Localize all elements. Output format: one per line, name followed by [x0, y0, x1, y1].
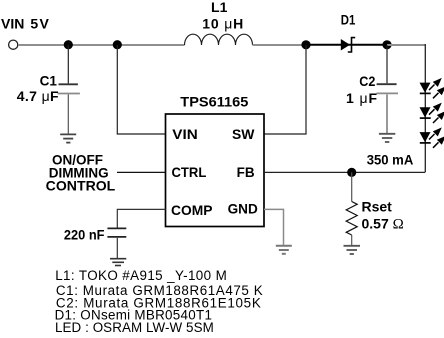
ground 220nF [110, 258, 126, 260]
node SW junction [301, 40, 310, 49]
node FB junction [347, 168, 356, 177]
svg-text:D1: D1 [341, 12, 356, 28]
capacitor C2 [377, 83, 397, 85]
svg-text:VIN: VIN [172, 126, 197, 142]
svg-text:1 μF: 1 μF [346, 90, 378, 106]
LED 3 (bottom) [420, 127, 444, 147]
node junction C1 branch [64, 40, 73, 49]
wire FB to Rset [351, 172, 353, 201]
resistor Rset [346, 202, 357, 236]
node junction VIN branch [113, 40, 122, 49]
svg-text:350 mA: 350 mA [367, 151, 414, 167]
wire output to LED string corner [387, 44, 425, 46]
svg-text:L1: L1 [211, 0, 228, 15]
capacitor 220nF (COMP) [107, 227, 126, 229]
wire C1 branch upper [67, 45, 69, 83]
wire top rail left (terminal to inductor) [18, 44, 185, 46]
svg-text:220 nF: 220 nF [64, 227, 105, 243]
ground C1 [60, 133, 76, 135]
wire LED string vertical [424, 44, 426, 172]
wire GND branch [264, 209, 284, 244]
svg-text:FB: FB [237, 164, 255, 180]
wire inductor to D1 [253, 44, 307, 46]
svg-text:4.7 μF: 4.7 μF [17, 88, 59, 104]
svg-text:0.57 Ω: 0.57 Ω [362, 216, 404, 233]
wire FB [264, 171, 425, 173]
wire D1 segment (bold) [306, 44, 387, 46]
ground GND pin [276, 245, 292, 247]
wire Rset to ground [351, 235, 353, 245]
svg-text:Rset: Rset [362, 199, 393, 215]
wire VIN branch [117, 45, 165, 134]
svg-text:CTRL: CTRL [172, 164, 207, 180]
svg-text:SW: SW [232, 126, 255, 142]
ground Rset [344, 245, 361, 247]
svg-text:VIN: VIN [1, 15, 24, 31]
svg-text:COMP: COMP [171, 202, 212, 218]
wire COMP branch [117, 209, 165, 227]
wire C1 branch lower [67, 94, 69, 134]
svg-text:10 μH: 10 μH [202, 15, 244, 31]
svg-text:C2: C2 [359, 73, 375, 89]
wire CTRL [117, 171, 166, 173]
wire C2 branch upper [386, 45, 388, 83]
svg-text:5V: 5V [30, 15, 50, 31]
svg-text:GND: GND [228, 200, 258, 216]
wire C2 branch lower [386, 94, 388, 133]
wire SW branch [264, 45, 306, 134]
ground C2 [379, 133, 395, 135]
svg-text:TPS61165: TPS61165 [180, 94, 248, 110]
node output junction [382, 40, 391, 49]
inductor L1 [185, 34, 253, 45]
LED 1 (top) [420, 78, 444, 98]
svg-text:LED : OSRAM LW-W 5SM: LED : OSRAM LW-W 5SM [55, 320, 214, 335]
node VIN input terminal [9, 40, 18, 49]
wire below 220nF [116, 238, 118, 258]
diode D1 (schottky) [341, 39, 350, 51]
svg-text:CONTROL: CONTROL [46, 177, 116, 193]
IC U1 TPS61165 box [166, 114, 265, 227]
svg-text:C1: C1 [40, 73, 57, 89]
capacitor C1 [59, 83, 78, 85]
LED 2 (middle) [420, 103, 444, 123]
svg-text:L1: TOKO #A915 _Y-100 M: L1: TOKO #A915 _Y-100 M [55, 268, 227, 283]
